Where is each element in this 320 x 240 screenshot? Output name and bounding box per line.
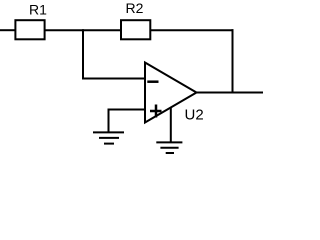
wire feedback vertical right <box>232 29 234 92</box>
ground (op-amp) <box>156 142 182 153</box>
wire op-amp to ground <box>170 108 172 143</box>
wire non-inverting input <box>109 109 147 111</box>
wire R1 to R2 <box>45 29 121 31</box>
svg-text:R1: R1 <box>29 2 47 18</box>
wire R2 to feedback corner <box>150 29 233 31</box>
op-amp U2 <box>145 63 197 123</box>
wire feedback vertical to inverting input <box>82 30 84 79</box>
pin + (non-inverting input marker) <box>150 105 162 118</box>
svg-text:R2: R2 <box>126 0 144 16</box>
ground (non-inverting input) <box>93 132 124 143</box>
wire input left to R1 <box>0 29 16 31</box>
resistor R2 <box>121 20 150 39</box>
wire inverting input <box>82 78 146 80</box>
svg-text:U2: U2 <box>185 107 204 124</box>
node junction at feedback tap <box>82 29 84 31</box>
wire output <box>196 92 263 94</box>
pin - (inverting input marker) <box>147 80 158 83</box>
wire non-inverting to ground <box>108 109 110 133</box>
resistor R1 <box>15 20 44 39</box>
